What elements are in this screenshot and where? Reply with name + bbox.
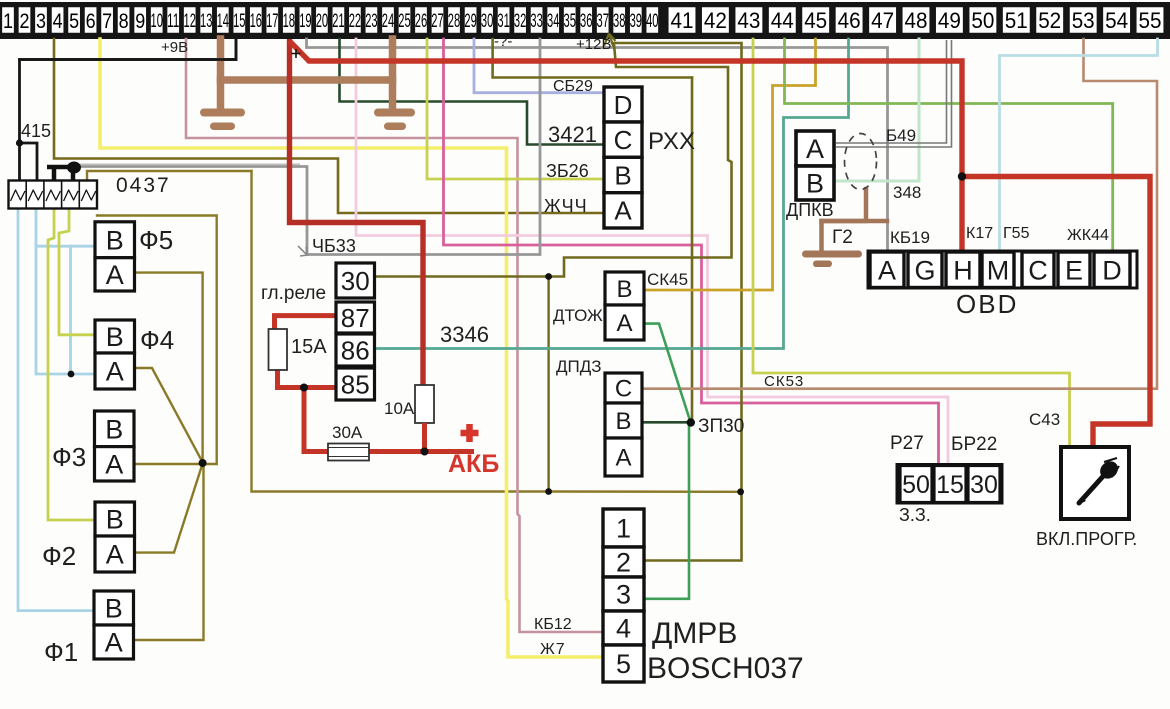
wire injector F5-A to node F <box>135 273 203 463</box>
wire pin45 gold to DTOZh pin B (net СК45) <box>644 39 816 290</box>
svg-text:ДМРВ: ДМРВ <box>652 617 737 650</box>
air flow meter ДМРВ pin 3 <box>603 577 644 611</box>
node injector lightblue junction <box>68 371 75 378</box>
wire red power bus horizontal to OBD H (net К17) <box>290 41 963 252</box>
svg-text:24: 24 <box>382 11 395 32</box>
svg-text:B: B <box>615 408 631 435</box>
svg-text:B: B <box>614 160 631 190</box>
svg-text:29: 29 <box>464 11 476 32</box>
svg-text:A: A <box>106 357 124 387</box>
throttle position sensor ДПДЗ pin A <box>605 438 642 476</box>
node F injector common <box>199 459 207 467</box>
svg-text:Ф5: Ф5 <box>139 225 173 255</box>
svg-text:28: 28 <box>448 11 460 32</box>
svg-text:10А: 10А <box>384 399 415 418</box>
svg-text:33: 33 <box>530 11 542 32</box>
svg-text:3346: 3346 <box>440 322 489 347</box>
svg-text:36: 36 <box>580 11 592 32</box>
svg-text:5: 5 <box>616 649 631 679</box>
svg-text:18: 18 <box>283 11 295 32</box>
svg-text:42: 42 <box>704 8 727 33</box>
resistor block 0437 (injector ballast) <box>9 181 98 209</box>
svg-text:СБ29: СБ29 <box>553 78 593 95</box>
fuse F3 30A <box>328 444 369 461</box>
svg-text:E: E <box>1065 256 1083 286</box>
svg-text:3421: 3421 <box>548 122 597 147</box>
svg-text:Ф1: Ф1 <box>44 637 78 667</box>
idle-air valve РХХ pin B <box>604 157 642 192</box>
wire pin44 green to OBD pin D (net ЖК44) <box>785 39 1113 252</box>
ground symbol G1 (pin 14) <box>200 109 245 117</box>
svg-text:48: 48 <box>905 8 928 33</box>
svg-text:20: 20 <box>316 11 328 32</box>
svg-text:СК45: СК45 <box>647 270 688 289</box>
svg-text:86: 86 <box>341 335 370 365</box>
wire pin15 black to 0437 block (net 415) <box>20 39 237 180</box>
fuse F2 10A <box>415 385 434 423</box>
svg-text:C: C <box>1028 256 1048 286</box>
injector connector Ф1 pin B <box>94 591 134 625</box>
jumper/tap on 0437 block <box>47 162 81 182</box>
svg-text:Г55: Г55 <box>1003 225 1030 242</box>
injector connector Ф4 pin A <box>95 353 135 389</box>
svg-text:3: 3 <box>36 10 46 33</box>
svg-text:54: 54 <box>1105 8 1128 33</box>
wire red branch to programming switch <box>962 177 1150 449</box>
svg-text:15А: 15А <box>291 336 327 358</box>
shield screen symbol (dashed) at ДПКВ <box>845 134 877 190</box>
svg-text:49: 49 <box>938 8 961 33</box>
injector connector Ф1 pin A <box>94 625 134 659</box>
svg-text:Ф4: Ф4 <box>140 325 174 355</box>
injector connector Ф2 pin A <box>95 536 135 572</box>
wire pin53 gray-brown to DPDZ pin C (net СК53) <box>642 39 1157 389</box>
node rail tap (548,491) <box>545 488 552 495</box>
air flow meter ДМРВ pin 4 <box>603 611 644 645</box>
node AKB/10A junction <box>421 448 429 456</box>
svg-text:41: 41 <box>671 8 694 33</box>
svg-text:РХХ: РХХ <box>648 128 695 155</box>
svg-text:30А: 30А <box>332 423 363 442</box>
svg-text:ЗП30: ЗП30 <box>698 416 744 437</box>
idle-air valve РХХ pin A <box>604 193 642 228</box>
wire relay pin87 through fuse 15A to pin85 <box>275 316 337 330</box>
svg-text:0437: 0437 <box>116 174 171 197</box>
svg-text:6: 6 <box>86 10 96 33</box>
svg-text:17: 17 <box>266 11 278 32</box>
svg-text:A: A <box>105 628 123 658</box>
+12V arrow at pin 37 <box>604 34 616 48</box>
svg-text:A: A <box>616 310 632 337</box>
svg-text:348: 348 <box>893 183 921 202</box>
wire injector F3-A to node F <box>134 463 217 465</box>
svg-text:2: 2 <box>616 548 631 578</box>
relay K1 pin 86 <box>336 334 375 366</box>
wire pin24 brown ground trunk <box>389 39 397 110</box>
svg-text:37: 37 <box>597 11 609 32</box>
svg-text:45: 45 <box>804 8 827 33</box>
ignition switch З.З. pin 15 <box>934 466 966 503</box>
svg-text:43: 43 <box>737 8 760 33</box>
svg-text:19: 19 <box>299 11 311 32</box>
wire pin12 brown-white to DMRV pin4 (net КБ12) <box>186 39 604 632</box>
diagnostic connector OBD pin A <box>870 252 904 288</box>
diagnostic connector OBD pin G <box>908 252 942 288</box>
injector connector Ф3 pin B <box>95 411 135 447</box>
svg-text:+9В: +9В <box>161 39 188 56</box>
crank sensor ДПКВ pin B <box>796 166 834 200</box>
wire brown link pin14 to pin24 trunk <box>221 76 393 84</box>
diagnostic connector OBD pin E <box>1058 252 1090 288</box>
svg-text:47: 47 <box>871 8 894 33</box>
svg-text:40: 40 <box>646 11 658 32</box>
svg-text:BOSCH037: BOSCH037 <box>647 652 804 685</box>
wire chartreuse 0437 to F4-B <box>59 209 95 335</box>
wire pin26 chartreuse to PXX pin B (net ЗБ26) <box>427 39 604 179</box>
wire pin7 yellow to DMRV pin5 (net Ж7) <box>100 39 604 657</box>
wire pin4 olive-black to PXX pin A (net ЖЧЧ) <box>54 39 604 213</box>
wire pin29 blue-white to PXX pin D (net СБ29) <box>474 39 604 93</box>
svg-text:27: 27 <box>431 11 443 32</box>
svg-text:B: B <box>106 505 124 535</box>
wire pin21 dark-green to PXX pin C (net 3421) <box>340 39 605 145</box>
svg-text:B: B <box>105 594 123 624</box>
arrowhead net ЧБ33 <box>298 246 307 256</box>
svg-text:8: 8 <box>119 10 129 33</box>
svg-text:22: 22 <box>349 11 361 32</box>
svg-text:A: A <box>615 445 631 472</box>
wire pin43 chartreuse to programming switch (net С43) <box>753 39 1070 448</box>
diagnostic connector OBD pin D <box>1094 252 1130 288</box>
air flow meter ДМРВ pin 2 <box>603 547 644 578</box>
svg-text:4: 4 <box>53 10 63 33</box>
injector connector Ф5 pin A <box>95 258 135 291</box>
svg-text:OBD: OBD <box>956 289 1018 319</box>
svg-text:A: A <box>106 540 124 570</box>
svg-text:ЗБ26: ЗБ26 <box>546 161 589 181</box>
svg-text:B: B <box>105 415 123 445</box>
injector connector Ф2 pin B <box>95 502 135 536</box>
wire pin22 white-pink to ignition-switch pin15 (net БР22) <box>356 39 948 466</box>
svg-text:ЖЧЧ: ЖЧЧ <box>544 196 588 216</box>
diagnostic connector OBD outer shell <box>868 251 1137 288</box>
injector connector Ф4 pin B <box>95 320 135 353</box>
relay K1 pin 85 <box>336 368 375 400</box>
air flow meter ДМРВ pin 5 <box>603 645 644 682</box>
throttle position sensor ДПДЗ pin B <box>605 403 642 438</box>
node ЗП30 <box>687 418 695 426</box>
relay K1 pin 87 <box>336 302 375 333</box>
svg-text:50: 50 <box>971 8 994 33</box>
svg-text:З.З.: З.З. <box>899 505 931 525</box>
node 415 junction <box>16 139 23 146</box>
wire +12V branch lower to relay pin30 <box>375 44 732 277</box>
wire 415 branch <box>20 143 38 180</box>
svg-text:13: 13 <box>200 11 212 32</box>
svg-text:ДПКВ: ДПКВ <box>786 200 834 220</box>
wire fuse 10A to AKB rail <box>422 423 427 452</box>
wire pin18 red main power bus <box>290 39 424 386</box>
fuse F1 15A <box>269 329 288 370</box>
wire pin14 brown ground trunk <box>217 39 225 110</box>
svg-text:G: G <box>914 256 935 286</box>
svg-text:53: 53 <box>1072 8 1095 33</box>
wire injector F4-A diagonal to node F <box>135 368 203 462</box>
svg-text:A: A <box>105 450 123 480</box>
wire pin27 pink to ignition-switch pin15 (net Р27) <box>444 39 939 466</box>
ECU connector strip X1 pins 1-55 <box>0 2 1170 39</box>
injector connector Ф5 pin B <box>95 222 135 258</box>
svg-text:ЧБ33: ЧБ33 <box>312 236 356 256</box>
wire ЧБ33 double-line companion <box>80 163 300 165</box>
svg-text:7: 7 <box>102 10 112 33</box>
svg-text:52: 52 <box>1038 8 1061 33</box>
svg-text:ВКЛ.ПРОГР.: ВКЛ.ПРОГР. <box>1036 529 1137 549</box>
svg-text:3: 3 <box>616 580 631 610</box>
wire light-blue branch F5-B line down to node (71,374) <box>69 246 72 374</box>
svg-text:50: 50 <box>902 471 930 499</box>
battery AKB plus terminal <box>461 424 479 442</box>
svg-text:35: 35 <box>564 11 576 32</box>
svg-text:M: M <box>987 256 1010 286</box>
svg-text:ЖК44: ЖК44 <box>1067 227 1109 244</box>
wire DPDZ pin B to node ЗП30 <box>642 421 691 424</box>
svg-text:1: 1 <box>3 10 13 33</box>
svg-text:39: 39 <box>630 11 642 32</box>
ground symbol G2 <box>802 251 862 258</box>
svg-text:С43: С43 <box>1029 410 1060 429</box>
svg-text:30: 30 <box>341 266 370 296</box>
svg-text:21: 21 <box>332 11 344 32</box>
programming switch ВКЛ.ПРОГР box <box>1061 447 1129 519</box>
svg-text:B: B <box>616 276 632 303</box>
wire pin48 mint to DPKV pin B (net 348) <box>836 39 919 181</box>
svg-text:B: B <box>106 322 124 352</box>
relay K1 pin 30 <box>336 263 375 298</box>
wire G2 horizontal extension <box>822 219 888 224</box>
svg-text:14: 14 <box>217 11 230 32</box>
wire shielded pair upper to DPKV pin A (net Б49) <box>836 40 947 143</box>
air flow meter ДМРВ pin 1 <box>603 509 644 547</box>
svg-text:26: 26 <box>415 11 427 32</box>
wire node ЗП30 down to DMRV pin3 <box>604 423 689 599</box>
svg-text:К17: К17 <box>966 225 993 242</box>
svg-text:КБ19: КБ19 <box>890 228 930 247</box>
node red bus branch <box>958 172 966 180</box>
wire chartreuse 0437 to F2-B <box>48 209 95 521</box>
svg-text:2: 2 <box>20 10 30 33</box>
wire relay pin85 node down to fuse 30A and AKB <box>304 388 329 452</box>
wire shielded pair lower to DPKV pin A <box>836 40 952 147</box>
wire pin33 black-white to 0437 tap (net ЧБ33) <box>80 39 540 255</box>
wire pin15 black overpass <box>20 39 237 60</box>
svg-text:+12В: +12В <box>576 36 611 53</box>
wire pin19 gray to OBD pin A (net КБ19) <box>307 39 888 252</box>
wire pin46 green to relay pin86 (net 3346) <box>375 39 849 349</box>
svg-text:30: 30 <box>481 11 493 32</box>
svg-text:4: 4 <box>616 614 631 644</box>
diagnostic connector OBD pin M <box>982 252 1014 288</box>
wire khaki rail 0437 block to feed rail y492 <box>252 171 741 492</box>
wire pin30 olive around PXX to node ЗП30 <box>493 39 692 78</box>
svg-text:C: C <box>614 125 633 155</box>
svg-text:БР22: БР22 <box>951 434 997 455</box>
node relay85/fuse junction <box>300 384 308 392</box>
svg-text:87: 87 <box>341 303 370 333</box>
svg-text:34: 34 <box>547 11 560 32</box>
wire DTOZh pin A to node ЗП30 <box>644 324 690 422</box>
svg-text:38: 38 <box>613 11 625 32</box>
diagnostic connector OBD pin C <box>1022 252 1054 288</box>
svg-text:Б49: Б49 <box>886 126 916 145</box>
svg-text:ДТОЖ: ДТОЖ <box>553 306 603 325</box>
injector connector Ф3 pin A <box>95 447 135 481</box>
node rail tap (740,491) <box>737 488 744 495</box>
wire injector F1-A up to node F <box>134 464 204 641</box>
svg-text:9: 9 <box>135 10 145 33</box>
svg-text:85: 85 <box>341 369 370 399</box>
svg-text:Ф2: Ф2 <box>42 541 76 571</box>
svg-text:55: 55 <box>1139 8 1162 33</box>
svg-text:11: 11 <box>167 11 179 32</box>
svg-text:КБ12: КБ12 <box>534 616 572 633</box>
svg-text:46: 46 <box>838 8 861 33</box>
svg-text:-?-: -?- <box>494 33 512 50</box>
wire feed branch down from dot (548.6,276.5) to rail <box>547 277 549 492</box>
svg-text:H: H <box>953 256 973 286</box>
svg-text:B: B <box>106 226 124 256</box>
svg-text:Ф3: Ф3 <box>52 442 86 472</box>
svg-text:12: 12 <box>184 11 196 32</box>
svg-text:15: 15 <box>233 11 245 32</box>
crank sensor ДПКВ pin A <box>796 131 834 166</box>
svg-text:Р27: Р27 <box>890 433 924 454</box>
idle-air valve РХХ pin D <box>604 87 642 122</box>
wire injector F2-A diagonal to node F <box>134 464 203 553</box>
ignition switch З.З. pin 30 <box>968 466 1000 503</box>
svg-text:23: 23 <box>365 11 377 32</box>
wire pin55 light-blue to OBD pin M (net Г55) <box>1000 39 1158 252</box>
svg-text:D: D <box>614 90 633 120</box>
svg-text:A: A <box>106 260 124 290</box>
svg-text:B: B <box>806 169 824 199</box>
svg-text:25: 25 <box>398 11 410 32</box>
wire olive PXX bracket vertical to node ЗП30 <box>691 78 692 423</box>
svg-text:A: A <box>614 196 632 226</box>
svg-text:Ж7: Ж7 <box>540 641 566 658</box>
ignition switch З.З. pin 50 <box>900 466 932 503</box>
svg-text:16: 16 <box>250 11 262 32</box>
ignition switch З.З. outer shell <box>897 465 1002 504</box>
wire light-blue 0437 to F1-B <box>18 209 94 611</box>
svg-text:Г2: Г2 <box>832 227 853 248</box>
wire khaki block bottom-right to node F (via x217) <box>97 216 217 464</box>
svg-text:32: 32 <box>514 11 526 32</box>
idle-air valve РХХ pin C <box>604 122 642 157</box>
svg-text:C: C <box>615 376 632 403</box>
svg-text:A: A <box>806 134 824 164</box>
svg-text:A: A <box>878 256 896 286</box>
ground symbol G3 (pin 24) <box>374 109 415 117</box>
svg-text:5: 5 <box>69 10 79 33</box>
svg-text:гл.реле: гл.реле <box>261 283 326 304</box>
svg-text:415: 415 <box>21 121 51 141</box>
wire light-blue 0437 to F4-A <box>36 209 95 375</box>
wire light-blue branch to F5-B <box>36 245 95 248</box>
throttle position sensor ДПДЗ pin C <box>605 373 642 403</box>
wire DPKV shield to ground G2 <box>822 189 867 251</box>
svg-text:1: 1 <box>616 514 631 544</box>
svg-text:СК53: СК53 <box>764 373 804 390</box>
plus mark at pin18 <box>292 49 301 58</box>
svg-text:31: 31 <box>497 11 509 32</box>
diagnostic connector OBD pin H <box>946 252 980 288</box>
svg-text:АКБ: АКБ <box>448 450 499 478</box>
svg-text:51: 51 <box>1005 8 1028 33</box>
svg-text:D: D <box>1102 256 1122 286</box>
svg-text:44: 44 <box>771 8 794 33</box>
svg-text:10: 10 <box>151 11 163 32</box>
svg-text:15: 15 <box>936 471 964 499</box>
coolant temp sensor ДТОЖ pin B <box>605 272 644 305</box>
wire +12V branch upper to feed rail dot and DMRV pin2 <box>612 43 742 561</box>
wire 0437 block to east stub <box>87 171 252 180</box>
node feed tap (548,276) <box>545 273 552 280</box>
coolant temp sensor ДТОЖ pin A <box>605 305 644 340</box>
svg-text:ДПДЗ: ДПДЗ <box>556 357 602 376</box>
svg-text:30: 30 <box>970 471 998 499</box>
